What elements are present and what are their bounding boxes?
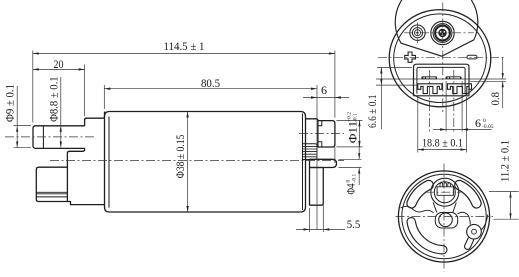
svg-text:-0.1: -0.1 — [352, 174, 358, 183]
svg-text:5.5: 5.5 — [347, 217, 361, 231]
svg-text:Φ38 ± 0.15: Φ38 ± 0.15 — [173, 135, 187, 179]
svg-text:Φ9 ± 0.1: Φ9 ± 0.1 — [3, 84, 17, 122]
svg-text:6: 6 — [475, 116, 481, 130]
svg-text:-0.1: -0.1 — [353, 113, 359, 122]
svg-text:Φ8.8 ± 0.1: Φ8.8 ± 0.1 — [47, 76, 61, 122]
svg-text:Φ11: Φ11 — [346, 121, 360, 144]
svg-text:114.5 ± 1: 114.5 ± 1 — [164, 39, 205, 53]
svg-text:80.5: 80.5 — [201, 76, 220, 90]
svg-text:11.2 ± 0.1: 11.2 ± 0.1 — [498, 140, 512, 182]
svg-text:20: 20 — [54, 57, 64, 71]
svg-text:6: 6 — [321, 83, 327, 97]
svg-text:0.8: 0.8 — [488, 92, 502, 106]
svg-text:-0.05: -0.05 — [482, 124, 494, 130]
svg-text:Φ4: Φ4 — [344, 184, 358, 195]
svg-text:18.8 ± 0.1: 18.8 ± 0.1 — [422, 136, 463, 150]
svg-text:6.6 ± 0.1: 6.6 ± 0.1 — [365, 95, 379, 129]
